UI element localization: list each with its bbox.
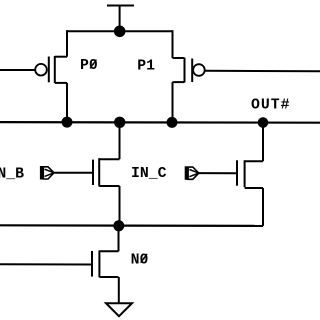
node P0 drain junction	[62, 117, 73, 128]
wire N0 gate input	[0, 263, 92, 265]
transistor P0	[35, 56, 67, 83]
wire P0 gate input	[0, 69, 35, 71]
wire N0 source to ground	[118, 277, 120, 303]
transistor N0 nmos	[92, 250, 119, 277]
wire P1 gate to right edge	[205, 70, 320, 73]
transistor P1	[173, 58, 205, 83]
node OUT# junction	[258, 117, 269, 128]
wire IN_C source lead	[262, 188, 264, 226]
wire IN_B source lead	[119, 186, 121, 226]
node middle rail junction	[113, 220, 124, 231]
node IN_B drain junction	[114, 117, 125, 128]
wire P0 drain to output rail	[66, 83, 68, 122]
svg-text:P1: P1	[137, 59, 155, 75]
wire N0 drain lead	[118, 226, 120, 252]
power supply VDD	[107, 6, 134, 29]
input port IN_C	[185, 166, 199, 180]
slash of zero in N0	[141, 254, 147, 263]
transistor IN_C nmos	[237, 160, 263, 188]
wire IN_B drain lead	[119, 122, 121, 159]
ground	[106, 303, 132, 316]
wire IN_B gate input	[54, 172, 93, 174]
transistor IN_B nmos	[93, 158, 120, 186]
input port IN_B	[40, 166, 54, 180]
svg-text:OUT#: OUT#	[251, 97, 291, 113]
node VDD junction	[114, 26, 126, 38]
wire IN_C drain lead	[262, 123, 264, 162]
wire P0 source lead	[66, 30, 68, 57]
node P1 drain junction	[167, 117, 178, 128]
slash of zero in P0	[90, 60, 96, 69]
wire P1 source lead	[172, 30, 174, 58]
wire output rail	[0, 121, 320, 124]
wire IN_C gate input	[199, 172, 237, 174]
wire top rail	[67, 30, 173, 32]
svg-text:IN_B: IN_B	[0, 166, 24, 182]
wire middle rail	[0, 224, 263, 227]
svg-text:IN_C: IN_C	[131, 166, 167, 182]
wire P1 drain to output rail	[172, 82, 174, 122]
